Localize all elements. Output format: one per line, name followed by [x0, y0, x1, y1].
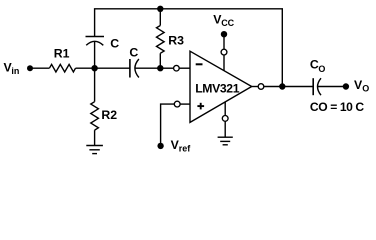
wire C0 to Vo	[318, 86, 346, 88]
wire node A to C2	[95, 67, 130, 69]
svg-text:R3: R3	[168, 34, 184, 48]
capacitor C (horizontal, C2)	[130, 59, 139, 78]
node A junction	[91, 65, 97, 71]
node Vin label	[4, 60, 20, 76]
wire circle to op-amp minus	[179, 67, 190, 69]
svg-text:O: O	[318, 64, 325, 74]
svg-text:O: O	[362, 84, 369, 94]
wire circle to Vref	[161, 104, 175, 146]
resistor R1	[49, 64, 75, 72]
pin inverting input terminal circle	[174, 65, 180, 71]
pin output terminal circle	[258, 84, 264, 90]
op-amp U1 LMV321 triangle	[190, 51, 252, 122]
ground (below R2)	[86, 146, 103, 154]
wire R2 to ground	[94, 130, 96, 145]
pin V- terminal circle	[222, 116, 228, 122]
node Vref label	[171, 138, 192, 154]
wire R3 to node B	[159, 53, 161, 68]
svg-text:ref: ref	[179, 143, 192, 153]
wire node A down to R2	[94, 68, 96, 102]
svg-text:C: C	[110, 37, 119, 51]
svg-text:LMV321: LMV321	[195, 82, 240, 96]
wire pin circle to op-amp top	[223, 55, 225, 71]
wire node C to C0	[282, 86, 313, 88]
svg-text:C: C	[129, 46, 138, 60]
pin V+ terminal circle	[221, 49, 227, 55]
svg-text:R2: R2	[101, 108, 117, 122]
wire op-amp plus input	[180, 103, 190, 105]
ground (op-amp)	[218, 137, 233, 145]
node B junction	[157, 65, 163, 71]
capacitor C0	[313, 78, 321, 95]
pin non-inverting input terminal circle	[174, 101, 180, 107]
svg-text:R1: R1	[54, 47, 70, 61]
node Vo label	[354, 78, 369, 94]
wire Vcc to pin circle	[223, 34, 225, 49]
node Vcc terminal	[221, 31, 227, 37]
wire C2 to node B	[135, 67, 160, 69]
wire gnd pin circle to ground	[224, 121, 226, 137]
wire R1 to node A	[76, 67, 95, 69]
svg-text:in: in	[11, 66, 19, 76]
op-amp plus sign	[197, 103, 204, 110]
node C junction (feedback)	[279, 83, 285, 89]
wire top rail	[95, 9, 283, 87]
node Vin terminal	[27, 65, 33, 71]
wire output circle to node C	[264, 86, 283, 88]
wire rail to R3	[159, 9, 161, 26]
label C0	[310, 58, 326, 74]
svg-text:CC: CC	[221, 18, 234, 28]
node Vcc label	[213, 12, 234, 28]
node Vref terminal	[157, 143, 163, 149]
svg-text:CO = 10 C: CO = 10 C	[310, 100, 365, 114]
wire op-amp bottom to gnd pin circle	[224, 102, 226, 116]
op-amp minus sign	[196, 63, 203, 65]
wire Vin to R1	[30, 67, 49, 69]
wire C1 to node A	[94, 42, 96, 69]
capacitor C (vertical, C1)	[86, 37, 105, 46]
node rail junction (R3 top)	[157, 6, 163, 12]
node Vo terminal	[343, 83, 349, 89]
wire op-amp output to circle	[252, 86, 259, 88]
resistor R3	[157, 26, 165, 54]
resistor R2	[91, 102, 99, 130]
wire node B to inverting input	[160, 67, 173, 69]
